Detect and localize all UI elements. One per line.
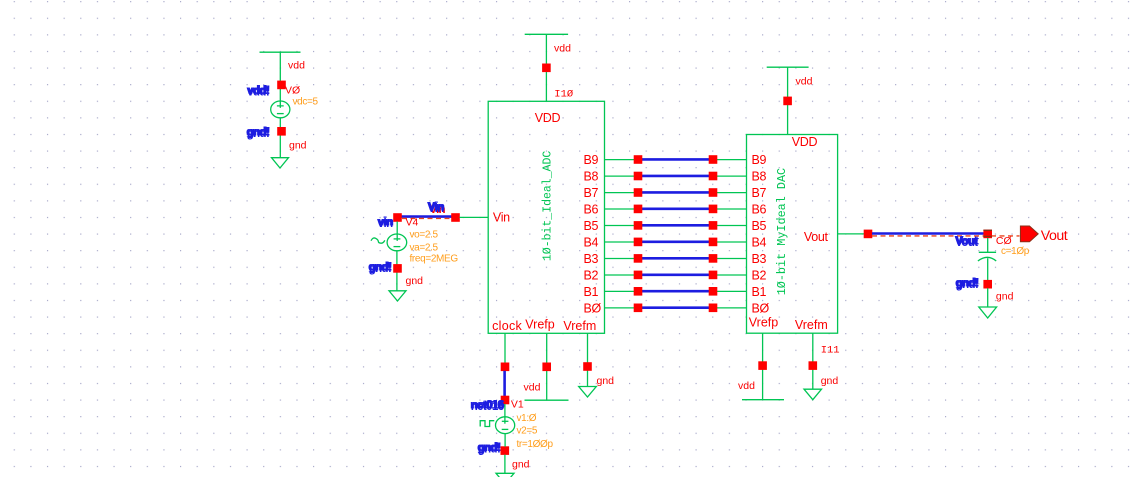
vdd rail bar: [525, 399, 569, 401]
clock net / source V1: [470, 333, 553, 477]
pin square: [393, 213, 402, 222]
wire B7 blue: [642, 191, 709, 194]
ground symbol: [804, 389, 822, 400]
svg-text:1Ø-bit_Ideal_ADC: 1Ø-bit_Ideal_ADC: [541, 151, 554, 262]
ground symbol: [579, 387, 597, 398]
svg-text:B3: B3: [584, 252, 599, 266]
bus bit B8: [584, 170, 767, 184]
pin stub wires: [605, 241, 747, 243]
pin square: [709, 254, 718, 263]
source V4 group: [368, 202, 488, 302]
svg-text:va=2.5: va=2.5: [410, 243, 439, 254]
svg-text:B2: B2: [752, 269, 767, 283]
svg-text:B4: B4: [584, 236, 599, 250]
pin square: [501, 396, 510, 405]
svg-text:Vrefp: Vrefp: [749, 316, 778, 330]
wire: [546, 333, 548, 400]
pin square: [583, 362, 592, 371]
output port arrow: [1020, 226, 1038, 242]
output net Vout: [838, 226, 1068, 318]
svg-text:vdc=5: vdc=5: [293, 97, 319, 108]
pin square: [709, 188, 718, 197]
minus: [502, 428, 509, 430]
sine squiggle: [371, 238, 385, 243]
svg-text:vdd: vdd: [288, 60, 305, 72]
pin stub wires: [605, 274, 747, 276]
svg-text:B5: B5: [752, 219, 767, 233]
pin square: [864, 230, 873, 239]
wire Vout blue: [872, 232, 984, 235]
svg-text:B9: B9: [584, 153, 599, 167]
pin square: [809, 361, 818, 370]
svg-text:Vin: Vin: [493, 210, 510, 224]
svg-text:B1: B1: [752, 285, 767, 299]
svg-text:vdd!: vdd!: [247, 85, 269, 97]
pin stub wires: [605, 225, 747, 227]
bus bit B5: [584, 219, 767, 233]
pin square: [634, 271, 643, 280]
pin square: [709, 205, 718, 214]
wire B9 blue: [642, 158, 709, 161]
svg-text:VØ: VØ: [285, 84, 300, 96]
DAC Vrefp to vdd: [738, 333, 784, 400]
svg-text:gnd!: gnd!: [368, 261, 391, 273]
svg-text:VDD: VDD: [792, 135, 818, 149]
svg-text:I1Ø: I1Ø: [554, 89, 573, 101]
svg-text:gnd!: gnd!: [246, 127, 269, 139]
svg-text:vin: vin: [377, 217, 392, 229]
wire B1 blue: [642, 290, 709, 293]
pin square: [277, 81, 286, 90]
wire from clock pin: [504, 333, 506, 363]
svg-text:gnd: gnd: [289, 140, 307, 152]
wire: [987, 258, 989, 280]
vdc source circle V0: [271, 101, 290, 118]
pin square: [709, 238, 718, 247]
wire B4 blue: [642, 241, 709, 244]
svg-text:B3: B3: [752, 252, 767, 266]
svg-text:Vout: Vout: [955, 236, 978, 248]
ground symbol (clipped): [496, 473, 514, 477]
pin square: [709, 287, 718, 296]
svg-text:gnd: gnd: [512, 459, 530, 471]
svg-text:1Ø-bit MyIdeal DAC: 1Ø-bit MyIdeal DAC: [775, 168, 789, 295]
bus bit B3: [584, 252, 767, 266]
capacitor C0 top plate: [979, 251, 996, 253]
wire: [987, 288, 989, 307]
svg-text:vdd: vdd: [738, 380, 755, 392]
wire: [279, 118, 281, 158]
wire to ADC: [460, 216, 489, 218]
pin square: [634, 172, 643, 181]
svg-text:v1:Ø: v1:Ø: [517, 413, 537, 424]
svg-text:vdd: vdd: [554, 42, 571, 54]
wire: [762, 333, 764, 400]
pin stub wires: [605, 192, 747, 194]
svg-text:B7: B7: [584, 186, 599, 200]
plus: [394, 238, 401, 240]
ground symbol: [272, 158, 289, 168]
wire: [987, 238, 989, 252]
pin square: [634, 304, 643, 313]
svg-text:V1: V1: [511, 398, 524, 410]
wire Vin blue: [402, 215, 452, 218]
pin square: [709, 155, 718, 164]
svg-text:B1: B1: [584, 285, 599, 299]
wire: [279, 52, 281, 101]
svg-text:Vrefp: Vrefp: [525, 318, 554, 332]
plus: [277, 101, 284, 108]
pin square: [634, 287, 643, 296]
svg-text:clock: clock: [492, 319, 522, 333]
pin square: [277, 127, 286, 136]
pin square: [634, 254, 643, 263]
pin stub wires: [605, 307, 747, 309]
svg-text:B6: B6: [752, 203, 767, 217]
pin stub wires: [605, 175, 747, 177]
wire clock blue: [503, 371, 506, 396]
vdd rail bar: [742, 399, 784, 401]
pin square: [983, 280, 992, 289]
wire from Vout pin: [838, 233, 864, 235]
svg-text:freq=2MEG: freq=2MEG: [410, 253, 459, 264]
wire B6 blue: [642, 208, 709, 211]
ADC Vrefm to gnd: [579, 333, 614, 397]
bus bit B7: [584, 186, 767, 200]
svg-text:c=1Øp: c=1Øp: [1001, 246, 1030, 257]
pin square: [983, 230, 992, 239]
ground symbol: [389, 291, 406, 301]
bus bit B4: [584, 236, 767, 250]
vdd rail bar: [525, 33, 568, 35]
vsin source circle V4: [387, 234, 407, 251]
bus bit B2: [584, 269, 767, 283]
svg-text:Vrefm: Vrefm: [563, 319, 596, 333]
pin square: [542, 64, 551, 73]
ADC body rectangle: [488, 101, 604, 333]
net flag dash: [402, 217, 451, 219]
svg-text:gnd: gnd: [996, 290, 1014, 302]
minus: [394, 246, 401, 248]
pin square: [542, 363, 551, 372]
bus bit B0: [584, 302, 770, 316]
vdd rail bar: [260, 51, 301, 53]
pin stub wires: [605, 159, 747, 161]
bus bit B6: [584, 203, 767, 217]
pin square: [393, 264, 402, 273]
junction overlay marks: [983, 230, 992, 236]
bus bit B1: [584, 285, 767, 299]
wire B2 blue: [642, 273, 709, 276]
pin square: [758, 361, 767, 370]
supply V0 group: [246, 52, 319, 168]
pin square: [451, 213, 460, 222]
svg-text:B8: B8: [752, 170, 767, 184]
pin square: [501, 446, 510, 455]
svg-text:vo=2.5: vo=2.5: [410, 230, 439, 241]
svg-text:gnd!: gnd!: [477, 442, 500, 454]
svg-text:B9: B9: [752, 153, 767, 167]
svg-text:B5: B5: [584, 219, 599, 233]
svg-text:B2: B2: [584, 269, 599, 283]
svg-text:vdd: vdd: [796, 75, 813, 87]
bus wires B9..B0: [584, 153, 770, 315]
ADC Vrefp to vdd: [524, 333, 569, 400]
wire B8 blue: [642, 175, 709, 178]
wire: [504, 434, 506, 474]
ADC instance I10: [488, 101, 604, 333]
pin square: [709, 304, 718, 313]
svg-text:Vout: Vout: [1041, 228, 1068, 244]
svg-text:vdd: vdd: [524, 382, 541, 394]
ADC vdd supply: [525, 34, 574, 101]
DAC instance I11: [747, 135, 838, 334]
wire: [396, 251, 398, 291]
pin square: [634, 188, 643, 197]
pin square: [634, 205, 643, 214]
pin square: [634, 238, 643, 247]
pin square: [709, 172, 718, 181]
wire: [396, 222, 398, 241]
vpulse source circle V1: [496, 417, 515, 434]
pin stub wires: [605, 208, 747, 210]
svg-text:VDD: VDD: [535, 111, 561, 125]
wire B0 blue: [642, 306, 709, 309]
pin stub wires: [605, 290, 747, 292]
wire: [587, 333, 589, 386]
wire B5 blue: [642, 224, 709, 227]
svg-text:B7: B7: [752, 186, 767, 200]
svg-text:v2=5: v2=5: [517, 426, 538, 437]
svg-text:Vrefm: Vrefm: [795, 318, 828, 332]
wire: [787, 67, 789, 134]
pin stub wires: [605, 258, 747, 260]
svg-text:B6: B6: [584, 203, 599, 217]
svg-text:tr=1ØØp: tr=1ØØp: [517, 439, 554, 450]
svg-text:BØ: BØ: [584, 302, 602, 316]
wire B3 blue: [642, 257, 709, 260]
svg-text:Vout: Vout: [804, 230, 829, 244]
svg-text:gnd: gnd: [597, 375, 615, 387]
square wave glyph: [480, 421, 494, 427]
svg-text:net016: net016: [470, 400, 503, 412]
wire: [504, 404, 506, 424]
svg-text:BØ: BØ: [752, 302, 770, 316]
ground symbol: [979, 307, 997, 318]
pin square: [634, 221, 643, 230]
svg-text:B4: B4: [752, 236, 767, 250]
svg-text:gnd: gnd: [406, 275, 424, 287]
plus: [502, 420, 509, 422]
pin square: [709, 221, 718, 230]
pin square: [501, 363, 510, 372]
wire: [812, 333, 814, 389]
svg-text:gnd!: gnd!: [955, 278, 978, 290]
DAC vdd supply: [767, 67, 813, 134]
svg-text:V4: V4: [406, 216, 419, 228]
minus: [277, 113, 284, 115]
capacitor C0 bottom plate arc: [978, 257, 996, 261]
svg-text:Vin: Vin: [427, 202, 443, 214]
pin square: [783, 97, 792, 106]
svg-text:I11: I11: [821, 345, 840, 357]
wire: [545, 34, 547, 101]
DAC Vrefm to gnd: [804, 333, 840, 400]
pin square: [709, 271, 718, 280]
svg-text:gnd: gnd: [821, 375, 839, 387]
bus bit B9: [584, 153, 767, 167]
pin square: [634, 155, 643, 164]
net flag dash: [872, 235, 1020, 237]
svg-text:B8: B8: [584, 170, 599, 184]
DAC body rectangle: [747, 135, 838, 334]
vdd rail bar: [767, 66, 809, 68]
